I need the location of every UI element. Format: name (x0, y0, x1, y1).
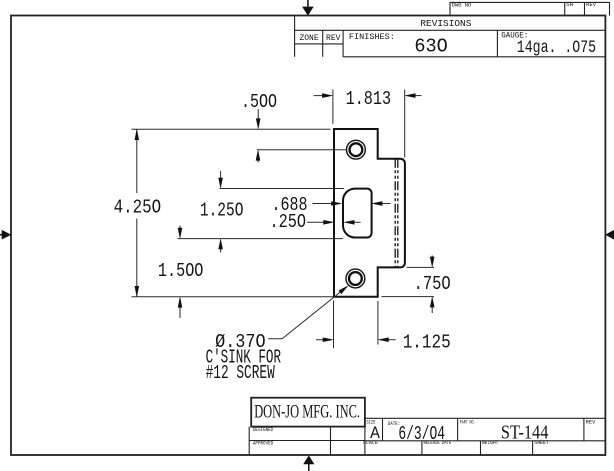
extension line top hole center (257, 149, 346, 151)
svg-text:FINISHES:: FINISHES: (349, 33, 395, 42)
extension line 1.125 right (377, 301, 379, 345)
svg-text:ZONE: ZONE (300, 34, 319, 43)
dim .750 arrows (431, 256, 433, 260)
svg-text:4.25O: 4.25O (114, 197, 162, 219)
svg-text:REV: REV (586, 420, 597, 426)
right centering mark (605, 230, 614, 240)
leader line to countersink hole (268, 288, 345, 339)
svg-text:SCALE: SCALE (363, 440, 378, 446)
extension line latch top (220, 188, 345, 190)
extension line plate bottom left (132, 296, 334, 298)
svg-text:63O: 63O (414, 35, 447, 57)
svg-text:APPROVED: APPROVED (253, 441, 273, 447)
svg-text:.5OO: .5OO (241, 91, 277, 113)
svg-text:#12 SCREW: #12 SCREW (206, 362, 276, 384)
svg-text:.75O: .75O (414, 273, 451, 295)
bend line 1 (394, 159, 396, 268)
svg-text:1.25O: 1.25O (200, 199, 244, 221)
extension line plate top (132, 128, 331, 130)
svg-text:1.125: 1.125 (403, 332, 451, 354)
svg-text:SH: SH (566, 2, 573, 8)
dim 4.250 line (136, 129, 138, 193)
top screw hole (347, 140, 366, 159)
svg-text:WEIGHT: WEIGHT (482, 440, 498, 446)
bottom screw hole (346, 269, 365, 288)
dim 1.813 arrows (314, 95, 325, 97)
svg-text:REV: REV (326, 34, 341, 43)
left centering mark (0, 230, 11, 240)
extension line latch bottom (178, 238, 344, 240)
svg-text:DESIGNED: DESIGNED (253, 427, 273, 433)
bend line 2 (397, 159, 399, 268)
dim 1.500 arrows (179, 226, 181, 231)
latch opening (343, 189, 372, 238)
svg-text:SHEET: SHEET (534, 440, 549, 446)
extension line tab bottom right (407, 266, 435, 268)
extension line plate bottom right (382, 296, 435, 298)
svg-text:DON-JO MFG. INC.: DON-JO MFG. INC. (254, 403, 360, 423)
extension line 1.813 left (332, 90, 334, 124)
top-right dwg-no strip (450, 2, 610, 15)
dim .250 arrows (307, 221, 325, 223)
svg-text:PART NO.: PART NO. (460, 420, 476, 426)
dim 1.125 arrows (316, 339, 325, 341)
extension line 1.125 left (333, 301, 335, 349)
svg-text:REVISIONS: REVISIONS (420, 18, 471, 29)
svg-text:1.5OO: 1.5OO (158, 260, 204, 282)
dim 1.250 arrows (220, 171, 222, 180)
dim .688 arrows (313, 203, 335, 205)
svg-text:.25O: .25O (270, 211, 307, 233)
svg-text:DWG NO: DWG NO (452, 3, 472, 9)
svg-text:RELEASE DATE: RELEASE DATE (424, 440, 452, 446)
svg-text:14ga. .O75: 14ga. .O75 (517, 38, 596, 58)
company logo box (251, 398, 365, 427)
top centering mark (302, 0, 314, 16)
extension line 1.813 right (404, 90, 406, 158)
title block lines (249, 418, 605, 455)
svg-text:1.813: 1.813 (346, 88, 392, 110)
strike plate outline (334, 129, 405, 297)
revisions table (295, 16, 606, 57)
bottom centering mark (303, 455, 314, 471)
svg-text:REV: REV (586, 2, 597, 8)
dim .500 arrows (257, 109, 259, 121)
